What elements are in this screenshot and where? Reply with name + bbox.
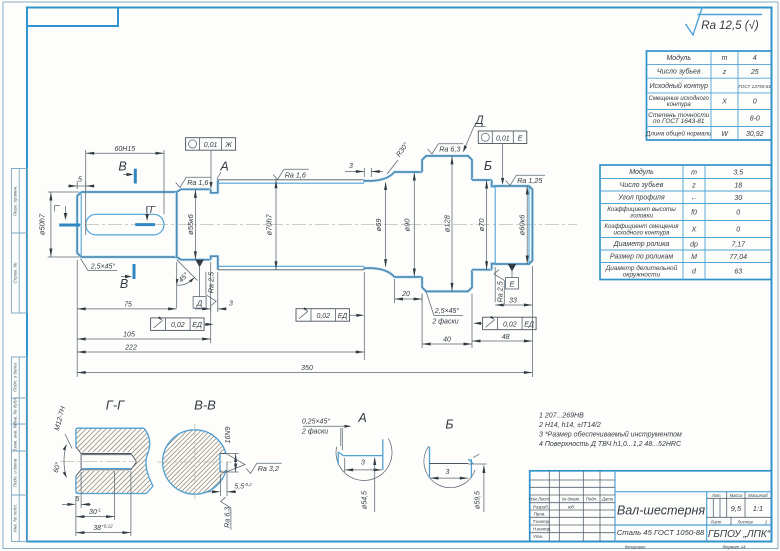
svg-text:ЕД: ЕД [192, 322, 202, 329]
svg-text:5: 5 [78, 177, 82, 184]
svg-text:Утв.: Утв. [533, 534, 543, 539]
svg-text:В-В: В-В [194, 398, 216, 413]
svg-text:Листов: Листов [736, 520, 753, 525]
svg-text:Модуль: Модуль [629, 168, 654, 176]
svg-text:А: А [357, 411, 366, 425]
svg-text:8-0: 8-0 [750, 116, 760, 123]
svg-text:63: 63 [734, 269, 742, 276]
svg-text:m: m [722, 55, 728, 62]
svg-text:40: 40 [443, 337, 451, 344]
svg-text:30,92: 30,92 [746, 131, 764, 138]
svg-text:3 *Размер обеспечиваемый инстр: 3 *Размер обеспечиваемый инструментом [539, 431, 682, 439]
svg-text:ø50h7: ø50h7 [38, 213, 47, 235]
svg-text:Вал-шестерня: Вал-шестерня [617, 504, 706, 518]
svg-text:контура: контура [667, 102, 692, 108]
svg-text:0: 0 [736, 227, 740, 234]
svg-text:В: В [120, 277, 128, 291]
svg-text:1:1: 1:1 [753, 504, 763, 513]
svg-text:←: ← [691, 195, 698, 202]
svg-text:ø128: ø128 [443, 214, 452, 232]
svg-text:Т.контр.: Т.контр. [533, 519, 551, 524]
svg-text:75: 75 [124, 301, 132, 308]
svg-text:Ra 2,5: Ra 2,5 [207, 271, 216, 293]
svg-text:Ж: Ж [224, 142, 232, 149]
svg-text:Подп. и дата: Подп. и дата [13, 458, 18, 487]
svg-text:ЕД: ЕД [338, 313, 348, 320]
svg-text:Подп. и дата: Подп. и дата [13, 363, 18, 392]
svg-text:окружности: окружности [623, 271, 661, 278]
svg-text:222: 222 [124, 345, 137, 352]
svg-text:0,01: 0,01 [204, 142, 218, 149]
svg-text:30: 30 [734, 195, 742, 202]
svg-text:0: 0 [753, 99, 757, 106]
svg-text:16N9: 16N9 [225, 427, 232, 444]
svg-text:Исходный контур: Исходный контур [650, 82, 709, 90]
svg-text:Ra 12,5 (√): Ra 12,5 (√) [701, 19, 759, 32]
svg-text:Изм.Лист: Изм.Лист [529, 497, 549, 502]
svg-text:2 фаски: 2 фаски [301, 429, 328, 436]
svg-text:Длина общей нормали: Длина общей нормали [645, 131, 712, 138]
svg-text:20: 20 [401, 291, 410, 298]
svg-text:77,04: 77,04 [729, 254, 747, 261]
svg-text:1 207...269НВ: 1 207...269НВ [539, 413, 584, 420]
svg-text:Справ. №: Справ. № [13, 263, 18, 284]
svg-text:Е: Е [518, 135, 523, 142]
svg-text:В: В [118, 160, 126, 174]
svg-text:ø54,5: ø54,5 [362, 491, 369, 509]
svg-text:60H15: 60H15 [115, 146, 136, 153]
svg-text:Сталь 45 ГОСТ 1050-88: Сталь 45 ГОСТ 1050-88 [617, 528, 705, 537]
svg-text:X: X [691, 227, 697, 234]
svg-text:Разраб.: Разраб. [533, 504, 549, 509]
svg-text:исходного контура: исходного контура [613, 229, 670, 236]
svg-text:Д: Д [196, 298, 203, 307]
svg-text:7,17: 7,17 [731, 241, 746, 248]
svg-text:Ra 6,3: Ra 6,3 [439, 145, 460, 154]
svg-text:105: 105 [123, 332, 135, 339]
svg-text:Ra 1,6: Ra 1,6 [285, 170, 306, 179]
svg-text:ø90: ø90 [403, 218, 412, 232]
svg-text:Пров.: Пров. [534, 512, 546, 517]
svg-text:ø60к6: ø60к6 [518, 214, 527, 235]
svg-text:3,5: 3,5 [733, 169, 743, 176]
svg-text:4: 4 [753, 55, 757, 62]
svg-text:Н.контр.: Н.контр. [533, 527, 552, 532]
svg-text:2,5×45°: 2,5×45° [434, 307, 460, 315]
svg-text:4 Поверхность Д ТВЧ h1,0...1,2: 4 Поверхность Д ТВЧ h1,0...1,2 48...52HR… [539, 441, 682, 448]
svg-text:0,25×45°: 0,25×45° [302, 418, 330, 426]
svg-text:33: 33 [509, 298, 517, 305]
svg-text:f0: f0 [691, 210, 697, 217]
svg-text:Ra 6,3: Ra 6,3 [222, 507, 231, 528]
svg-text:Д: Д [473, 115, 483, 127]
svg-text:z: z [691, 182, 696, 189]
svg-text:3: 3 [446, 469, 450, 476]
svg-text:Диаметр ролика: Диаметр ролика [613, 241, 670, 248]
svg-text:25: 25 [750, 69, 759, 76]
svg-text:Модуль: Модуль [666, 54, 691, 62]
svg-text:X: X [721, 99, 727, 106]
svg-text:Б: Б [445, 418, 453, 432]
svg-text:dр: dр [690, 241, 698, 248]
svg-text:Инв. № подл.: Инв. № подл. [13, 504, 18, 533]
svg-text:ЕД: ЕД [524, 322, 534, 329]
svg-text:0: 0 [736, 210, 740, 217]
svg-text:0,02: 0,02 [316, 313, 330, 320]
svg-text:ø70h7: ø70h7 [265, 213, 274, 235]
svg-text:ø69: ø69 [374, 218, 383, 232]
svg-text:Копировал: Копировал [625, 545, 646, 550]
svg-text:№ докум.: № докум. [562, 497, 580, 502]
svg-text:m: m [691, 169, 697, 176]
svg-text:Ra 1,25: Ra 1,25 [517, 176, 543, 185]
svg-text:3: 3 [229, 301, 233, 308]
svg-text:Масса: Масса [730, 493, 743, 498]
svg-text:2 Н14, h14, ±IT14/2: 2 Н14, h14, ±IT14/2 [538, 422, 601, 429]
svg-text:Перв. примен.: Перв. примен. [13, 185, 18, 216]
svg-text:Ra 3,2: Ra 3,2 [258, 464, 279, 473]
svg-text:головки: головки [630, 212, 653, 219]
svg-text:18: 18 [734, 182, 742, 189]
svg-text:ø70: ø70 [477, 218, 486, 232]
svg-text:Лист: Лист [710, 520, 722, 525]
svg-text:юб: юб [568, 504, 574, 509]
svg-text:0,02: 0,02 [503, 322, 517, 329]
svg-text:3: 3 [361, 460, 365, 467]
svg-text:ø55к6: ø55к6 [186, 213, 195, 234]
svg-text:Ra 1,6: Ra 1,6 [187, 178, 208, 187]
svg-text:по ГОСТ 1643-81: по ГОСТ 1643-81 [653, 118, 705, 125]
svg-text:2 фаски: 2 фаски [431, 319, 458, 326]
svg-text:ГОСТ 13755-81: ГОСТ 13755-81 [738, 84, 771, 89]
svg-text:0,02: 0,02 [171, 322, 185, 329]
svg-text:ГБПОУ „ЛПК“: ГБПОУ „ЛПК“ [708, 529, 771, 540]
svg-text:M: M [691, 254, 697, 261]
svg-text:3: 3 [349, 163, 353, 170]
svg-text:Смещение исходного: Смещение исходного [648, 96, 709, 102]
svg-text:Размер по роликам: Размер по роликам [610, 254, 673, 261]
svg-text:Инв. № дубл.: Инв. № дубл. [13, 397, 18, 425]
svg-text:0,01: 0,01 [496, 135, 510, 142]
svg-text:2,5×45°: 2,5×45° [90, 263, 116, 271]
svg-text:z: z [722, 69, 727, 76]
svg-text:ø59,5: ø59,5 [475, 491, 482, 509]
svg-text:Угол профиля: Угол профиля [617, 195, 665, 202]
svg-text:Число зубьев: Число зубьев [657, 68, 701, 76]
svg-text:Лит.: Лит. [711, 493, 722, 498]
svg-text:Подп.: Подп. [586, 497, 597, 502]
svg-text:Формат А4: Формат А4 [723, 545, 747, 550]
svg-text:Г-Г: Г-Г [106, 398, 125, 413]
svg-text:Ra 2,5: Ra 2,5 [496, 280, 505, 302]
svg-text:А: А [219, 160, 228, 174]
svg-text:48: 48 [502, 334, 510, 341]
svg-text:Б: Б [484, 159, 492, 173]
svg-text:Масштаб: Масштаб [748, 493, 768, 498]
svg-text:Дата: Дата [601, 497, 614, 502]
svg-text:350: 350 [301, 365, 313, 372]
svg-text:5: 5 [76, 496, 80, 503]
svg-text:Число зубьев: Число зубьев [620, 181, 664, 189]
svg-text:Взам. инв. №: Взам. инв. № [13, 423, 18, 451]
svg-text:9,5: 9,5 [731, 504, 742, 513]
